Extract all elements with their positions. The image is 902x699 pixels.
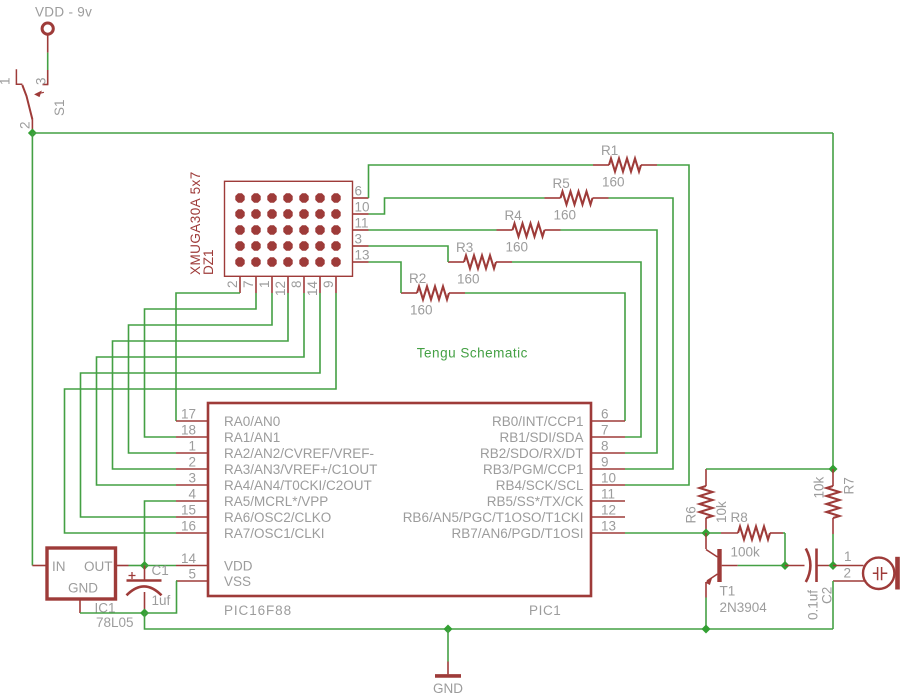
PIC1 pin 6 RB0/INT/CCP1 <box>492 407 625 430</box>
switch S1 pin 2 <box>31 120 33 132</box>
switch S1 actuator arrow <box>35 92 44 97</box>
svg-text:R5: R5 <box>553 176 570 191</box>
label R8 <box>731 510 748 525</box>
svg-text:2N3904: 2N3904 <box>720 600 768 615</box>
svg-text:15: 15 <box>181 503 196 518</box>
label R6 <box>684 506 699 523</box>
DZ1 pin 6 <box>353 184 369 199</box>
svg-text:T1: T1 <box>720 584 736 599</box>
svg-text:OUT: OUT <box>84 559 113 574</box>
title Tengu Schematic <box>417 346 528 361</box>
svg-text:10: 10 <box>355 200 370 215</box>
DZ1 pin 9 <box>321 276 336 293</box>
svg-text:160: 160 <box>602 175 625 190</box>
PIC1 pin 1 RA2/AN2/CVREF/VREF- <box>176 439 374 462</box>
PIC1 pin 3 RA4/AN4/T0CKI/C2OUT <box>176 471 372 494</box>
PIC1 pin 2 RA3/AN3/VREF+/C1OUT <box>176 455 377 478</box>
svg-text:2: 2 <box>844 566 852 581</box>
wire supply to switch pin 3 <box>47 35 49 71</box>
value 160 (R2) <box>410 303 433 318</box>
PIC1 pin 18 RA1/AN1 <box>176 423 280 446</box>
svg-text:PIC1: PIC1 <box>529 603 561 618</box>
svg-text:4: 4 <box>188 487 196 502</box>
svg-text:R3: R3 <box>456 240 473 255</box>
LED matrix DZ1 dots <box>235 193 340 266</box>
IC1 text IN <box>52 559 66 574</box>
PIC1 pin 15 RA6/OSC2/CLKO <box>176 503 331 526</box>
IC1 pin OUT <box>116 565 145 567</box>
svg-text:R1: R1 <box>601 143 618 158</box>
junction R7 top node <box>829 465 838 474</box>
PIC1 pin 11 RB5/SS*/TX/CK <box>487 487 625 510</box>
resistor R8 100k <box>706 527 785 566</box>
svg-text:9: 9 <box>601 455 609 470</box>
wire 9V rail down to R7 node <box>832 133 834 469</box>
junction switch output node <box>28 129 37 138</box>
wire R5 to PIC pin 9 <box>609 198 674 469</box>
PIC1 pin 10 RB4/SCK/SCL <box>496 471 625 494</box>
PIC1 pin 5 VSS <box>176 567 251 590</box>
value 10k (R6) <box>714 501 729 523</box>
value 160 (R3) <box>457 272 480 287</box>
value 160 (R1) <box>602 175 625 190</box>
svg-text:160: 160 <box>457 272 480 287</box>
value 78L05 <box>96 615 134 630</box>
value 10k (R7) <box>812 476 827 498</box>
svg-text:78L05: 78L05 <box>96 615 134 630</box>
switch S1 lever <box>22 85 32 120</box>
PIC1 pin 7 RB1/SDI/SDA <box>499 423 625 446</box>
wire DZ1 pin14 to RA6 <box>81 293 321 517</box>
PIC1 pin 14 VDD <box>176 551 253 574</box>
svg-text:12: 12 <box>601 503 616 518</box>
microphone MIC electret <box>863 557 900 590</box>
wire R3 to PIC pin 7 <box>512 262 641 437</box>
mic pin 1 <box>833 549 864 566</box>
PIC1 pin 9 RB3/PGM/CCP1 <box>483 455 625 478</box>
svg-text:16: 16 <box>181 519 196 534</box>
svg-text:9: 9 <box>321 280 336 288</box>
label R4 <box>505 208 523 223</box>
svg-text:1: 1 <box>844 549 852 564</box>
resistor R5 160 <box>545 192 609 205</box>
svg-text:GND: GND <box>68 581 98 596</box>
svg-text:VDD - 9v: VDD - 9v <box>35 5 92 20</box>
svg-text:RA7/OSC1/CLKI: RA7/OSC1/CLKI <box>224 526 325 541</box>
wire DZ1 pin12 to RA3 <box>113 293 289 469</box>
svg-text:14: 14 <box>181 551 197 566</box>
label PIC1 <box>529 603 561 618</box>
svg-text:RA0/AN0: RA0/AN0 <box>224 414 280 429</box>
pin label 3 <box>34 77 49 85</box>
label IC1 <box>95 601 116 616</box>
svg-text:R6: R6 <box>684 506 699 523</box>
junction ground at GND symbol <box>444 625 453 634</box>
wire RA5/MCLR to VDD node <box>145 501 177 566</box>
svg-text:RA4/AN4/T0CKI/C2OUT: RA4/AN4/T0CKI/C2OUT <box>224 478 372 493</box>
wire T1 base to C2 node <box>738 565 785 567</box>
DZ1 pin 14 <box>305 276 320 296</box>
label XMUGA30A 5x7 <box>188 171 203 275</box>
pin label 2 <box>18 121 33 129</box>
svg-text:VDD: VDD <box>224 559 253 574</box>
svg-text:18: 18 <box>181 423 196 438</box>
svg-text:RB7/AN6/PGD/T1OSI: RB7/AN6/PGD/T1OSI <box>451 526 583 541</box>
wire ground rail <box>145 613 834 629</box>
junction T1 emitter to ground rail <box>702 625 711 634</box>
wire PIC pin13 to R6 node <box>625 532 706 534</box>
label R5 <box>553 176 570 191</box>
value 160 (R5) <box>554 208 577 223</box>
svg-text:RB6/AN5/PGC/T1OSO/T1CKI: RB6/AN5/PGC/T1OSO/T1CKI <box>403 510 584 525</box>
label C1 <box>152 563 169 578</box>
svg-text:0.1uf: 0.1uf <box>806 590 821 620</box>
svg-text:S1: S1 <box>52 99 67 116</box>
pin label 1 <box>0 77 13 85</box>
svg-text:R8: R8 <box>731 510 748 525</box>
PIC1 pin 4 RA5/MCRL*/VPP <box>176 487 328 510</box>
svg-text:VSS: VSS <box>224 574 251 589</box>
label R2 <box>409 271 426 286</box>
svg-text:RB0/INT/CCP1: RB0/INT/CCP1 <box>492 414 584 429</box>
ground symbol GND <box>435 629 461 676</box>
svg-text:RB5/SS*/TX/CK: RB5/SS*/TX/CK <box>487 494 584 509</box>
svg-text:12: 12 <box>273 281 288 296</box>
DZ1 pin 2 <box>225 276 240 293</box>
IC1 text OUT <box>84 559 113 574</box>
label PIC16F88 <box>224 603 292 618</box>
svg-text:C1: C1 <box>152 563 169 578</box>
svg-text:11: 11 <box>355 216 369 231</box>
wire DZ1 pin7 to RA1 <box>145 293 257 437</box>
wire DZ1 pin6 to R1 <box>369 165 594 198</box>
svg-text:100k: 100k <box>731 545 761 560</box>
svg-text:10k: 10k <box>714 501 729 523</box>
mic pin 2 <box>833 566 866 582</box>
PIC1 pin 16 RA7/OSC1/CLKI <box>176 519 325 542</box>
op-amp U1 PIC16F88 IC box (PIC1) <box>208 403 591 596</box>
svg-text:1uf: 1uf <box>152 593 171 608</box>
resistor R3 160 <box>448 256 512 269</box>
capacitor C1 polarized <box>127 566 162 614</box>
svg-text:17: 17 <box>181 407 196 422</box>
value 160 (R4) <box>506 240 529 255</box>
svg-text:11: 11 <box>601 487 615 502</box>
transistor T1 2N3904 <box>705 533 738 629</box>
svg-text:RA1/AN1: RA1/AN1 <box>224 430 280 445</box>
PIC1 pin 8 RB2/SDO/RX/DT <box>480 439 625 462</box>
IC1 pin IN <box>32 565 47 567</box>
PIC1 pin 12 RB6/AN5/PGC/T1OSO/T1CKI <box>403 503 625 526</box>
switch S1 pin 3 <box>43 70 49 85</box>
junction VDD node at C1+ <box>140 561 149 570</box>
label VDD - 9v <box>35 5 92 20</box>
wire C1- to PIC VSS <box>145 581 177 613</box>
svg-text:PIC16F88: PIC16F88 <box>224 603 292 618</box>
svg-text:7: 7 <box>241 280 256 288</box>
wire R1 to PIC pin 10 <box>625 165 689 485</box>
label T1 <box>720 584 736 599</box>
svg-text:8: 8 <box>601 439 609 454</box>
svg-text:RA6/OSC2/CLKO: RA6/OSC2/CLKO <box>224 510 331 525</box>
IC1 text GND <box>68 581 98 596</box>
junction GND node at C1- <box>140 609 149 618</box>
svg-text:1: 1 <box>257 280 272 288</box>
resistor R7 10k <box>827 469 840 566</box>
label S1 <box>52 99 67 116</box>
resistor R2 160 <box>401 287 465 300</box>
capacitor C2 0.1uf <box>785 549 833 583</box>
svg-text:1: 1 <box>188 439 196 454</box>
svg-text:160: 160 <box>506 240 529 255</box>
svg-text:2: 2 <box>188 455 196 470</box>
svg-text:R2: R2 <box>409 271 426 286</box>
resistor R4 160 <box>497 224 561 237</box>
svg-text:10: 10 <box>601 471 616 486</box>
svg-text:1: 1 <box>0 77 13 85</box>
svg-text:R7: R7 <box>842 477 857 494</box>
resistor R6 10k <box>700 469 713 533</box>
svg-text:13: 13 <box>355 248 370 263</box>
svg-text:6: 6 <box>601 407 609 422</box>
label R1 <box>601 143 618 158</box>
DZ1 pin 3 <box>353 232 369 247</box>
svg-text:GND: GND <box>433 681 463 696</box>
wire DZ1 pin2 to RA0 <box>176 293 240 421</box>
svg-text:3: 3 <box>34 77 49 85</box>
svg-text:RA2/AN2/CVREF/VREF-: RA2/AN2/CVREF/VREF- <box>224 446 374 461</box>
DZ1 pin 8 <box>289 276 304 293</box>
svg-text:IN: IN <box>52 559 66 574</box>
PIC1 pin 17 RA0/AN0 <box>176 407 280 430</box>
wire R6 top to R7 node <box>706 468 833 470</box>
label R3 <box>456 240 473 255</box>
DZ1 pin 13 <box>353 248 370 263</box>
svg-text:3: 3 <box>355 232 363 247</box>
svg-text:R4: R4 <box>505 208 523 223</box>
svg-text:2: 2 <box>225 280 240 288</box>
label C2 <box>820 587 835 604</box>
label R7 <box>842 477 857 494</box>
label DZ1 <box>201 249 216 275</box>
svg-text:160: 160 <box>554 208 577 223</box>
svg-text:DZ1: DZ1 <box>201 249 216 275</box>
wire R4 to PIC pin 8 <box>561 230 658 453</box>
svg-text:160: 160 <box>410 303 433 318</box>
svg-text:14: 14 <box>305 280 320 296</box>
value 0.1uf <box>806 590 821 620</box>
svg-text:Tengu Schematic: Tengu Schematic <box>417 346 528 361</box>
resistor R1 160 <box>593 159 657 172</box>
svg-text:5: 5 <box>188 567 196 582</box>
DZ1 pin 1 <box>257 276 272 293</box>
svg-text:RB1/SDI/SDA: RB1/SDI/SDA <box>499 430 583 445</box>
IC1 pin GND <box>80 599 145 613</box>
junction R6 bottom / R8 / T1 collector node <box>702 529 711 538</box>
svg-text:2: 2 <box>18 121 33 129</box>
wire R2 to PIC pin 6 <box>465 293 625 421</box>
wire DZ1 pin13 to R2 <box>369 262 402 293</box>
DZ1 pin 7 <box>241 276 256 293</box>
svg-text:RB4/SCK/SCL: RB4/SCK/SCL <box>496 478 584 493</box>
junction T1 base / C2 / R8 node <box>781 561 790 570</box>
svg-text:RB3/PGM/CCP1: RB3/PGM/CCP1 <box>483 462 584 477</box>
wire VDD node to PIC VDD pin <box>145 565 177 567</box>
switch S1 pin 1 contact <box>16 69 22 84</box>
svg-text:13: 13 <box>601 519 616 534</box>
LED matrix DZ1 box <box>225 181 353 276</box>
power flag VDD-9v circle <box>42 23 53 34</box>
wire DZ1 pin11 to R4 <box>369 229 497 231</box>
wire DZ1 pin1 to RA2 <box>129 293 273 453</box>
svg-text:RB2/SDO/RX/DT: RB2/SDO/RX/DT <box>480 446 584 461</box>
wire DZ1 pin10 to R5 <box>369 198 545 214</box>
label GND <box>433 681 463 696</box>
svg-text:6: 6 <box>355 184 363 199</box>
wire DZ1 pin9 to RA7 <box>65 293 337 533</box>
value 1uf <box>152 593 171 608</box>
PIC1 pin 13 RB7/AN6/PGD/T1OSI <box>451 519 625 542</box>
wire mic pin2 to ground rail <box>832 581 834 629</box>
svg-text:8: 8 <box>289 280 304 288</box>
junction C2 / mic pin1 / R7 bottom node <box>829 561 838 570</box>
wire DZ1 pin8 to RA4 <box>97 293 305 485</box>
svg-text:3: 3 <box>188 471 196 486</box>
voltage regulator IC1 78L05 box <box>47 548 116 599</box>
wire DZ1 pin3 to R3 <box>369 246 449 262</box>
DZ1 pin 10 <box>353 200 370 215</box>
wire 9V down left side to IC1 IN <box>31 133 33 566</box>
value 2N3904 <box>720 600 768 615</box>
wire 9V top rail <box>32 132 833 134</box>
DZ1 pin 12 <box>273 276 288 296</box>
DZ1 pin 11 <box>353 216 369 231</box>
svg-text:RA3/AN3/VREF+/C1OUT: RA3/AN3/VREF+/C1OUT <box>224 462 377 477</box>
svg-text:7: 7 <box>601 423 609 438</box>
svg-text:10k: 10k <box>812 476 827 498</box>
value 100k <box>731 545 761 560</box>
svg-text:RA5/MCRL*/VPP: RA5/MCRL*/VPP <box>224 494 328 509</box>
